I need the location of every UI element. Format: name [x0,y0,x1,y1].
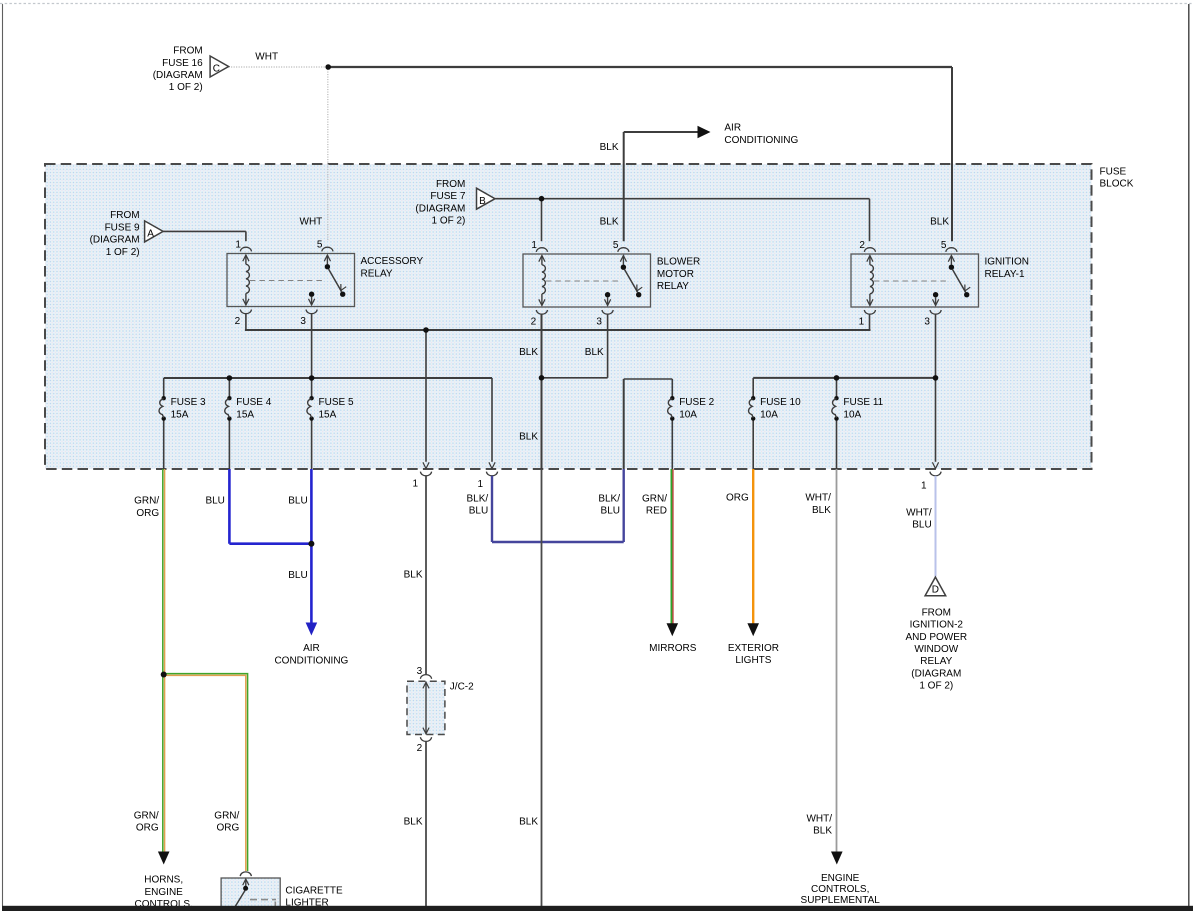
svg-text:ORG: ORG [136,823,159,834]
svg-text:ORG: ORG [217,823,240,834]
svg-text:SUPPLEMENTAL: SUPPLEMENTAL [801,895,881,906]
svg-text:RED: RED [646,506,667,517]
svg-text:10A: 10A [679,409,697,420]
svg-text:1: 1 [235,240,241,251]
svg-text:WHT/: WHT/ [806,814,832,825]
svg-text:HORNS,: HORNS, [144,874,183,885]
svg-text:RELAY: RELAY [657,281,689,292]
svg-text:3: 3 [924,317,930,328]
svg-text:2: 2 [235,316,241,327]
svg-text:FUSE 9: FUSE 9 [105,222,140,233]
svg-text:BLK: BLK [519,817,538,828]
svg-text:FUSE 5: FUSE 5 [319,397,354,408]
svg-text:CONDITIONING: CONDITIONING [274,655,348,666]
svg-text:CONDITIONING: CONDITIONING [724,135,798,146]
svg-text:FUSE 3: FUSE 3 [171,397,206,408]
svg-text:15A: 15A [171,409,189,420]
svg-text:FROM: FROM [110,210,139,221]
svg-text:RELAY-1: RELAY-1 [985,269,1025,280]
svg-text:CIGARETTE: CIGARETTE [285,885,343,896]
svg-text:D: D [932,585,939,596]
svg-text:BLK: BLK [813,826,832,837]
svg-text:ORG: ORG [136,508,159,519]
svg-text:3: 3 [300,316,306,327]
svg-text:1: 1 [921,481,927,492]
svg-text:10A: 10A [843,409,861,420]
svg-text:J/C-2: J/C-2 [450,681,474,692]
svg-text:1 OF 2): 1 OF 2) [106,247,140,258]
svg-text:5: 5 [941,240,947,251]
svg-text:BLOCK: BLOCK [1100,179,1134,190]
svg-text:BLK: BLK [600,217,619,228]
svg-text:WHT/: WHT/ [805,493,831,504]
svg-text:2: 2 [417,743,423,754]
svg-text:WHT: WHT [300,217,323,228]
svg-text:FROM: FROM [173,46,202,57]
svg-text:ACCESSORY: ACCESSORY [361,256,424,267]
svg-text:1: 1 [477,479,483,490]
svg-text:BLU: BLU [288,570,307,581]
svg-text:BLK: BLK [519,347,538,358]
svg-text:15A: 15A [236,409,254,420]
svg-text:BLU: BLU [205,496,224,507]
svg-text:ENGINE: ENGINE [821,873,860,884]
svg-text:2: 2 [859,240,865,251]
svg-text:FUSE 4: FUSE 4 [236,397,271,408]
svg-text:(DIAGRAM: (DIAGRAM [90,235,140,246]
svg-text:RELAY: RELAY [361,268,393,279]
svg-text:FUSE 16: FUSE 16 [162,58,203,69]
svg-text:BLK: BLK [930,217,949,228]
svg-text:IGNITION-2: IGNITION-2 [910,620,964,631]
svg-text:(DIAGRAM: (DIAGRAM [415,203,465,214]
svg-text:ENGINE: ENGINE [145,887,184,898]
svg-text:GRN/: GRN/ [134,496,159,507]
svg-text:FROM: FROM [436,179,465,190]
svg-text:BLK: BLK [585,347,604,358]
svg-text:BLOWER: BLOWER [657,257,700,268]
svg-text:BLK: BLK [404,570,423,581]
svg-text:AIR: AIR [303,643,320,654]
svg-text:ORG: ORG [726,493,749,504]
svg-text:BLK: BLK [812,505,831,516]
svg-text:CONTROLS,: CONTROLS, [811,884,869,895]
svg-text:1: 1 [859,317,865,328]
svg-text:AIR: AIR [724,123,741,134]
svg-text:LIGHTS: LIGHTS [735,655,771,666]
svg-text:BLU: BLU [469,506,488,517]
svg-text:RELAY: RELAY [920,656,952,667]
svg-text:FUSE 11: FUSE 11 [843,397,883,408]
svg-text:C: C [213,64,220,75]
svg-text:BLU: BLU [288,496,307,507]
svg-text:BLK/: BLK/ [598,494,620,505]
svg-text:10A: 10A [760,409,778,420]
svg-text:A: A [147,229,154,240]
svg-text:BLK: BLK [404,817,423,828]
svg-text:AND POWER: AND POWER [905,632,967,643]
svg-text:FROM: FROM [922,607,951,618]
svg-text:MIRRORS: MIRRORS [649,643,697,654]
svg-text:15A: 15A [319,409,337,420]
svg-text:(DIAGRAM: (DIAGRAM [153,70,203,81]
svg-text:1: 1 [412,478,418,489]
svg-text:FUSE: FUSE [1100,166,1127,177]
svg-text:FUSE 10: FUSE 10 [760,397,801,408]
svg-text:3: 3 [417,666,423,677]
svg-text:5: 5 [317,240,323,251]
svg-text:BLU: BLU [912,520,931,531]
svg-text:EXTERIOR: EXTERIOR [728,643,779,654]
svg-text:BLK: BLK [519,432,538,443]
svg-text:B: B [479,196,486,207]
svg-text:IGNITION: IGNITION [985,257,1029,268]
svg-text:FUSE 7: FUSE 7 [430,191,465,202]
svg-text:GRN/: GRN/ [642,494,667,505]
svg-text:MOTOR: MOTOR [657,269,694,280]
svg-text:1 OF 2): 1 OF 2) [169,82,203,93]
svg-text:GRN/: GRN/ [134,810,159,821]
svg-text:GRN/: GRN/ [214,810,239,821]
svg-text:BLU: BLU [601,506,620,517]
svg-text:1: 1 [531,240,537,251]
svg-text:2: 2 [531,317,537,328]
svg-text:FUSE 2: FUSE 2 [679,397,714,408]
svg-text:WINDOW: WINDOW [914,644,958,655]
svg-text:WHT/: WHT/ [906,508,932,519]
svg-text:BLK/: BLK/ [467,494,489,505]
svg-text:1 OF 2): 1 OF 2) [919,681,953,692]
svg-text:3: 3 [596,317,602,328]
svg-text:WHT: WHT [255,52,278,63]
svg-text:1 OF 2): 1 OF 2) [431,216,465,227]
svg-text:BLK: BLK [600,142,619,153]
svg-text:5: 5 [613,240,619,251]
svg-text:(DIAGRAM: (DIAGRAM [911,668,961,679]
